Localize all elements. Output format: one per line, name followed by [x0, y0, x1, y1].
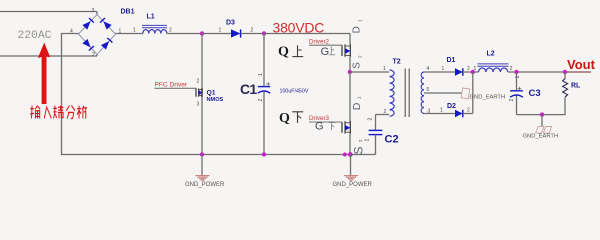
wire lower gate stub: [309, 121, 342, 123]
svg-text:2: 2: [467, 108, 470, 114]
pin S upper: [352, 62, 363, 69]
wire Q1 gate stub: [155, 87, 197, 89]
pin 3 of T2: [428, 109, 431, 115]
svg-text:DB1: DB1: [121, 9, 135, 16]
label L2: [487, 51, 495, 58]
transistor Q1 gate bar: [195, 88, 197, 97]
pin 1 of D1: [442, 66, 445, 72]
junction D1 cathode: [471, 70, 475, 74]
annotation CJK text input-side analysis: [30, 106, 87, 119]
transformer T2 secondary: [421, 72, 424, 114]
svg-text:1: 1: [357, 96, 362, 99]
svg-text:GND_POWER: GND_POWER: [185, 182, 225, 188]
pin 2 of D1: [467, 66, 470, 72]
wire C1 lower lead: [263, 92, 265, 155]
junction output earth: [540, 112, 544, 116]
svg-text:3: 3: [92, 8, 95, 14]
svg-text:2: 2: [510, 66, 513, 72]
wire C1 node to half-bridge: [264, 33, 350, 35]
C3 plus sign: [518, 87, 522, 91]
svg-text:GND_EARTH: GND_EARTH: [470, 94, 506, 100]
wire RL lower lead: [564, 97, 566, 114]
wire AC line 2 (bottom): [0, 54, 97, 57]
wire left column down: [61, 33, 63, 155]
wire DB1 pin1 to L1: [116, 33, 144, 36]
ground GND_POWER 2: [344, 176, 358, 181]
pin D lower digit: [357, 96, 362, 99]
pin 1 of D3: [219, 28, 222, 34]
svg-text:2: 2: [358, 55, 363, 58]
svg-text:D1: D1: [447, 57, 456, 64]
svg-text:3: 3: [197, 102, 200, 108]
pin S lower digit: [358, 139, 363, 142]
svg-text:GND_POWER: GND_POWER: [333, 182, 373, 188]
svg-text:380VDC: 380VDC: [273, 19, 325, 35]
pin 2 of L2: [510, 66, 513, 72]
annotation xia glyph: [292, 112, 303, 123]
pin 3 of DB1: [92, 8, 95, 14]
label GND_EARTH output: [523, 133, 559, 139]
pin D lower: [351, 102, 363, 110]
C1 plus sign: [266, 82, 270, 86]
wire node to D3: [202, 33, 231, 35]
svg-text:1: 1: [442, 66, 445, 72]
svg-text:D2: D2: [447, 103, 456, 110]
wire RL upper lead: [564, 72, 566, 79]
label D1: [447, 57, 456, 64]
junction node C1 top: [262, 31, 266, 35]
svg-text:1: 1: [474, 66, 477, 72]
junction C1 bottom: [262, 152, 266, 156]
svg-text:C1: C1: [240, 81, 257, 97]
svg-text:1: 1: [365, 139, 371, 142]
label G lower: [315, 121, 324, 133]
svg-text:1: 1: [219, 28, 222, 34]
transistor lower arrow: [345, 125, 350, 130]
inductor L2: [478, 64, 509, 72]
pin 2 of C2: [368, 118, 374, 121]
label D2: [447, 103, 456, 110]
bridge rectifier DB1: [79, 15, 116, 55]
junction node Q1 drain: [200, 31, 204, 35]
wire rectifier join column: [472, 72, 474, 114]
svg-text:S: S: [352, 62, 363, 69]
svg-text:2: 2: [169, 28, 172, 34]
capacitor C1: [258, 87, 270, 94]
pin 1 of D2: [440, 108, 443, 114]
svg-text:G: G: [315, 121, 324, 133]
wire AC line 1 (top): [0, 12, 97, 16]
transistor Q1 channel: [199, 89, 202, 97]
glyph xia after G: [329, 123, 335, 131]
wire D3 to C1 node: [241, 33, 264, 35]
annotation shang glyph: [292, 45, 303, 56]
wire Q1 drain-source column: [201, 34, 203, 155]
svg-text:1: 1: [515, 76, 521, 79]
svg-text:1: 1: [383, 66, 386, 72]
label NMOS: [207, 97, 224, 103]
diode D2: [455, 110, 463, 117]
junction source-rail b: [348, 152, 353, 157]
svg-text:G: G: [321, 46, 330, 58]
label GND_POWER 1: [185, 182, 225, 188]
pin 2 of L1: [169, 28, 172, 34]
svg-text:Q1: Q1: [207, 89, 216, 96]
wire D2 to join column: [463, 113, 473, 115]
pin 2 of Q1: [197, 79, 200, 85]
ground GND_EARTH center-tap: [461, 88, 470, 99]
svg-text:D3: D3: [226, 20, 235, 27]
pin 2 of C1: [258, 99, 264, 102]
wire lower drain: [349, 72, 351, 121]
wire C1 upper lead: [263, 34, 265, 87]
junction Q1 source: [200, 152, 204, 156]
annotation red arrow: [38, 43, 50, 105]
svg-text:1: 1: [358, 19, 363, 22]
pin 2 of D2: [467, 108, 470, 114]
pin S lower: [352, 146, 366, 154]
svg-text:2: 2: [467, 66, 470, 72]
svg-text:S: S: [352, 146, 366, 154]
svg-text:1: 1: [258, 73, 264, 76]
label Driver3: [309, 115, 329, 122]
label GND_POWER 2: [333, 182, 373, 188]
wire gnd stub 1: [201, 155, 203, 176]
pin 1 of L2: [474, 66, 477, 72]
pin 2 of C3: [509, 99, 515, 102]
wire T2 pin2 to C2: [376, 115, 390, 131]
pin 2 of D3: [251, 28, 254, 34]
label L1: [147, 14, 155, 21]
svg-text:RL: RL: [571, 83, 581, 90]
capacitor C3: [510, 91, 523, 97]
svg-text:Vout: Vout: [567, 57, 596, 72]
svg-text:2: 2: [251, 28, 254, 34]
wire output ground bus: [517, 114, 566, 116]
annotation Q upper: [278, 45, 289, 60]
label GND_EARTH center-tap: [470, 94, 506, 100]
pin 3 of Q1: [197, 102, 200, 108]
pin 1 of C3: [515, 76, 521, 79]
diode D3: [231, 29, 241, 37]
transistor lower channel: [345, 121, 350, 134]
svg-text:C3: C3: [529, 88, 541, 99]
transistor lower gate bar: [341, 122, 343, 133]
capacitor C2: [369, 130, 383, 134]
pin 1 of L1: [133, 28, 136, 34]
svg-text:4: 4: [427, 66, 430, 72]
svg-text:T2: T2: [393, 59, 401, 66]
svg-text:2: 2: [358, 139, 363, 142]
wire DB1 pin4 to left column: [62, 33, 79, 35]
wire L2 to Vout: [508, 71, 591, 73]
svg-text:2: 2: [258, 99, 264, 102]
pin 5 of T2: [427, 87, 430, 93]
pin 2 of T2: [384, 109, 387, 115]
label RL: [571, 83, 581, 90]
wire gnd stub 2: [350, 155, 352, 176]
diode D1: [455, 68, 463, 75]
junction RL top: [563, 70, 567, 74]
svg-text:2: 2: [368, 118, 374, 121]
svg-text:5: 5: [427, 87, 430, 93]
label 100uF/450V: [280, 88, 309, 94]
pin D upper digit: [358, 19, 363, 22]
pin 1 of C1: [258, 73, 264, 76]
wire D1 to L2: [463, 71, 479, 73]
svg-text:C2: C2: [385, 133, 399, 145]
label D3: [226, 20, 235, 27]
wire T2 pin5 to earth: [424, 92, 462, 94]
pin D upper: [352, 26, 363, 33]
svg-text:NMOS: NMOS: [207, 97, 224, 103]
wire L1 to D3 node: [167, 33, 202, 35]
annotation Q lower: [279, 111, 290, 126]
pin 4 of DB1: [70, 29, 73, 35]
transistor upper arrow: [345, 48, 350, 53]
svg-text:100uF/450V: 100uF/450V: [280, 88, 309, 94]
svg-text:1: 1: [440, 108, 443, 114]
svg-text:D: D: [351, 102, 363, 110]
label G upper: [321, 46, 330, 58]
label T2: [393, 59, 401, 66]
wire T2 pin4 to D1: [424, 71, 455, 73]
wire T2 pin3 to D2: [424, 113, 455, 115]
transistor Q1 arrow: [199, 90, 203, 95]
ground GND_POWER 1: [195, 176, 209, 181]
wire mid node to T2: [350, 71, 389, 73]
wire bottom ground rail: [62, 154, 376, 156]
inductor L1: [142, 25, 167, 33]
pin 1 of T2: [383, 66, 386, 72]
junction half-bridge mid: [348, 70, 352, 74]
svg-text:Q: Q: [279, 111, 290, 126]
wire upper gate stub: [309, 44, 342, 46]
text 220AC: [18, 30, 52, 42]
glyph shang after G: [329, 46, 335, 55]
label Driver2: [309, 38, 329, 45]
svg-text:PFC Driver: PFC Driver: [155, 82, 188, 89]
resistor RL: [563, 79, 568, 98]
wire lower source: [349, 134, 351, 155]
junction C3 top: [514, 70, 518, 74]
label 380VDC: [273, 19, 325, 35]
svg-text:1: 1: [133, 28, 136, 34]
label DB1: [121, 9, 135, 16]
svg-text:Q: Q: [278, 45, 289, 60]
pin S upper digit: [358, 55, 363, 58]
transformer T2 primary: [390, 70, 395, 116]
pin 2 of DB1: [92, 52, 95, 58]
svg-text:Driver2: Driver2: [309, 38, 329, 45]
svg-text:2: 2: [92, 52, 95, 58]
label C1: [240, 81, 257, 97]
wire C3 lower lead: [516, 96, 518, 115]
svg-text:GND_EARTH: GND_EARTH: [523, 133, 559, 139]
svg-text:L2: L2: [487, 51, 495, 58]
label C3: [529, 88, 541, 99]
svg-text:2: 2: [509, 99, 515, 102]
label Vout: [567, 57, 596, 72]
wire upper source: [349, 57, 351, 72]
svg-text:L1: L1: [147, 14, 155, 21]
wire C2 lower lead: [375, 135, 377, 155]
svg-text:D: D: [352, 26, 363, 33]
label PFC Driver: [155, 82, 188, 89]
pin 4 of T2: [427, 66, 430, 72]
transistor upper gate bar: [341, 45, 343, 56]
ground GND_EARTH output: [536, 127, 552, 134]
wire earth stub: [541, 115, 543, 127]
transistor upper channel: [345, 44, 350, 57]
wire upper drain: [349, 34, 351, 45]
pin 1 of DB1: [119, 29, 122, 35]
label C2: [385, 133, 399, 145]
svg-text:2: 2: [197, 79, 200, 85]
pin 1 of C2: [365, 139, 371, 142]
wire C3 upper lead: [516, 72, 518, 91]
junction source-rail a: [343, 153, 347, 157]
transformer T2 core: [405, 69, 409, 118]
label Q1: [207, 89, 216, 96]
svg-text:220AC: 220AC: [18, 30, 52, 42]
